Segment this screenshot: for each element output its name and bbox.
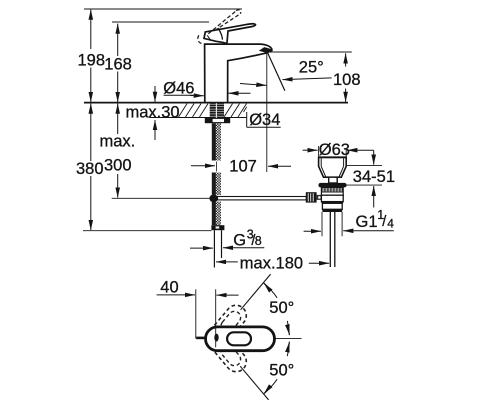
dimension max.30 (deck thickness) (154, 86, 156, 102)
svg-text:G1: G1 (356, 213, 378, 231)
svg-text:300: 300 (104, 157, 132, 175)
deck bottom line (150, 117, 247, 119)
lever internal crease (218, 28, 222, 40)
deck hatching (179, 104, 247, 117)
svg-text:107: 107 (229, 158, 257, 176)
hose centerline stub (215, 162, 217, 172)
svg-text:Ø63: Ø63 (319, 141, 350, 159)
svg-text:50°: 50° (269, 361, 294, 379)
svg-text:25°: 25° (299, 58, 324, 76)
supply hose upper (212, 123, 221, 160)
faucet body and spout outline (205, 44, 272, 103)
extension line 300 (hose end level) (112, 197, 210, 199)
spout tip extension line (horizontal) (268, 51, 352, 53)
extension line center (215, 289, 217, 347)
pop-up rod (218, 197, 307, 200)
extension line (lever closed, 168 ref) (112, 21, 209, 23)
countertop deck line (84, 102, 348, 104)
25 deg leader left (240, 84, 266, 86)
drain seal ring (black) (318, 183, 346, 188)
centerline right (275, 337, 302, 339)
G1 1/4 extension lines (321, 212, 323, 236)
max180 left arrow (216, 261, 238, 263)
G3/8 nut (211, 225, 224, 230)
dimension Ø46 right arrow (228, 92, 250, 94)
drain flange cup (319, 157, 347, 177)
drain collar (322, 203, 342, 209)
dimension max.300 (117, 104, 119, 134)
supply hose lower (212, 202, 221, 225)
svg-text:max.: max. (100, 133, 136, 151)
dimension 108 (345, 53, 347, 66)
dimension 34-51 (347, 165, 383, 167)
svg-text:max.30: max.30 (126, 104, 180, 122)
svg-text:168: 168 (104, 56, 132, 74)
locknut (205, 118, 230, 123)
lever slot (227, 332, 251, 345)
mounting shank (threaded) (210, 103, 224, 118)
supply pipe (213, 230, 215, 267)
svg-text:50°: 50° (269, 299, 294, 317)
radial line lower (240, 366, 268, 400)
pivot dot (214, 334, 218, 342)
lever nose stub (196, 337, 207, 340)
arc arrowheads (264, 283, 269, 289)
dashed lever position -50 (204, 326, 251, 376)
dimension G1 1/4 arrows (304, 230, 321, 232)
dimension 198 (90, 10, 92, 49)
drain tailpipe (329, 212, 331, 267)
drain body (321, 195, 343, 201)
pivot centerline inside pill (215, 328, 217, 347)
svg-text:380: 380 (76, 160, 104, 178)
max180 right arrow (309, 262, 329, 264)
dimension 107 (191, 165, 215, 167)
svg-text:8: 8 (255, 234, 262, 248)
extension line left (195, 289, 197, 338)
spout outlet extension line (vertical) (266, 52, 268, 172)
rod knurled clamp (306, 192, 317, 202)
lever top view (pill) (206, 327, 275, 351)
svg-text:108: 108 (333, 71, 361, 89)
svg-text:Ø34: Ø34 (249, 111, 280, 129)
lever handle (side view) (204, 24, 256, 44)
dimension Ø63 (303, 149, 318, 151)
dimension 168 (117, 24, 119, 56)
extension line top (lever raised, 198 ref) (84, 8, 242, 10)
rod connector with screw (317, 195, 322, 200)
drain flange ticks (318, 146, 320, 157)
lever raised position (dashed) (198, 10, 241, 44)
supply hose middle (212, 173, 221, 195)
svg-text:4: 4 (387, 216, 394, 230)
svg-text:G: G (233, 231, 246, 249)
hose junction ball (209, 195, 218, 203)
dashed lever position +50 (204, 301, 251, 351)
lever internal crease 2 (207, 35, 211, 41)
drain plug pin (329, 177, 338, 183)
swivel arc (264, 283, 290, 394)
G3/8 arrows (190, 247, 213, 249)
dimension 380 (90, 104, 92, 161)
svg-text:34-51: 34-51 (353, 168, 395, 186)
extension line 380 (pipe end level) (83, 230, 212, 232)
svg-text:198: 198 (78, 52, 106, 70)
water stream line (268, 53, 285, 91)
spout aerator tip (dark) (259, 47, 272, 53)
radial line upper (241, 274, 271, 310)
drain thread band (321, 187, 343, 195)
svg-text:40: 40 (160, 279, 178, 297)
svg-text:max.180: max.180 (240, 255, 303, 273)
25 deg leader right (282, 78, 331, 80)
